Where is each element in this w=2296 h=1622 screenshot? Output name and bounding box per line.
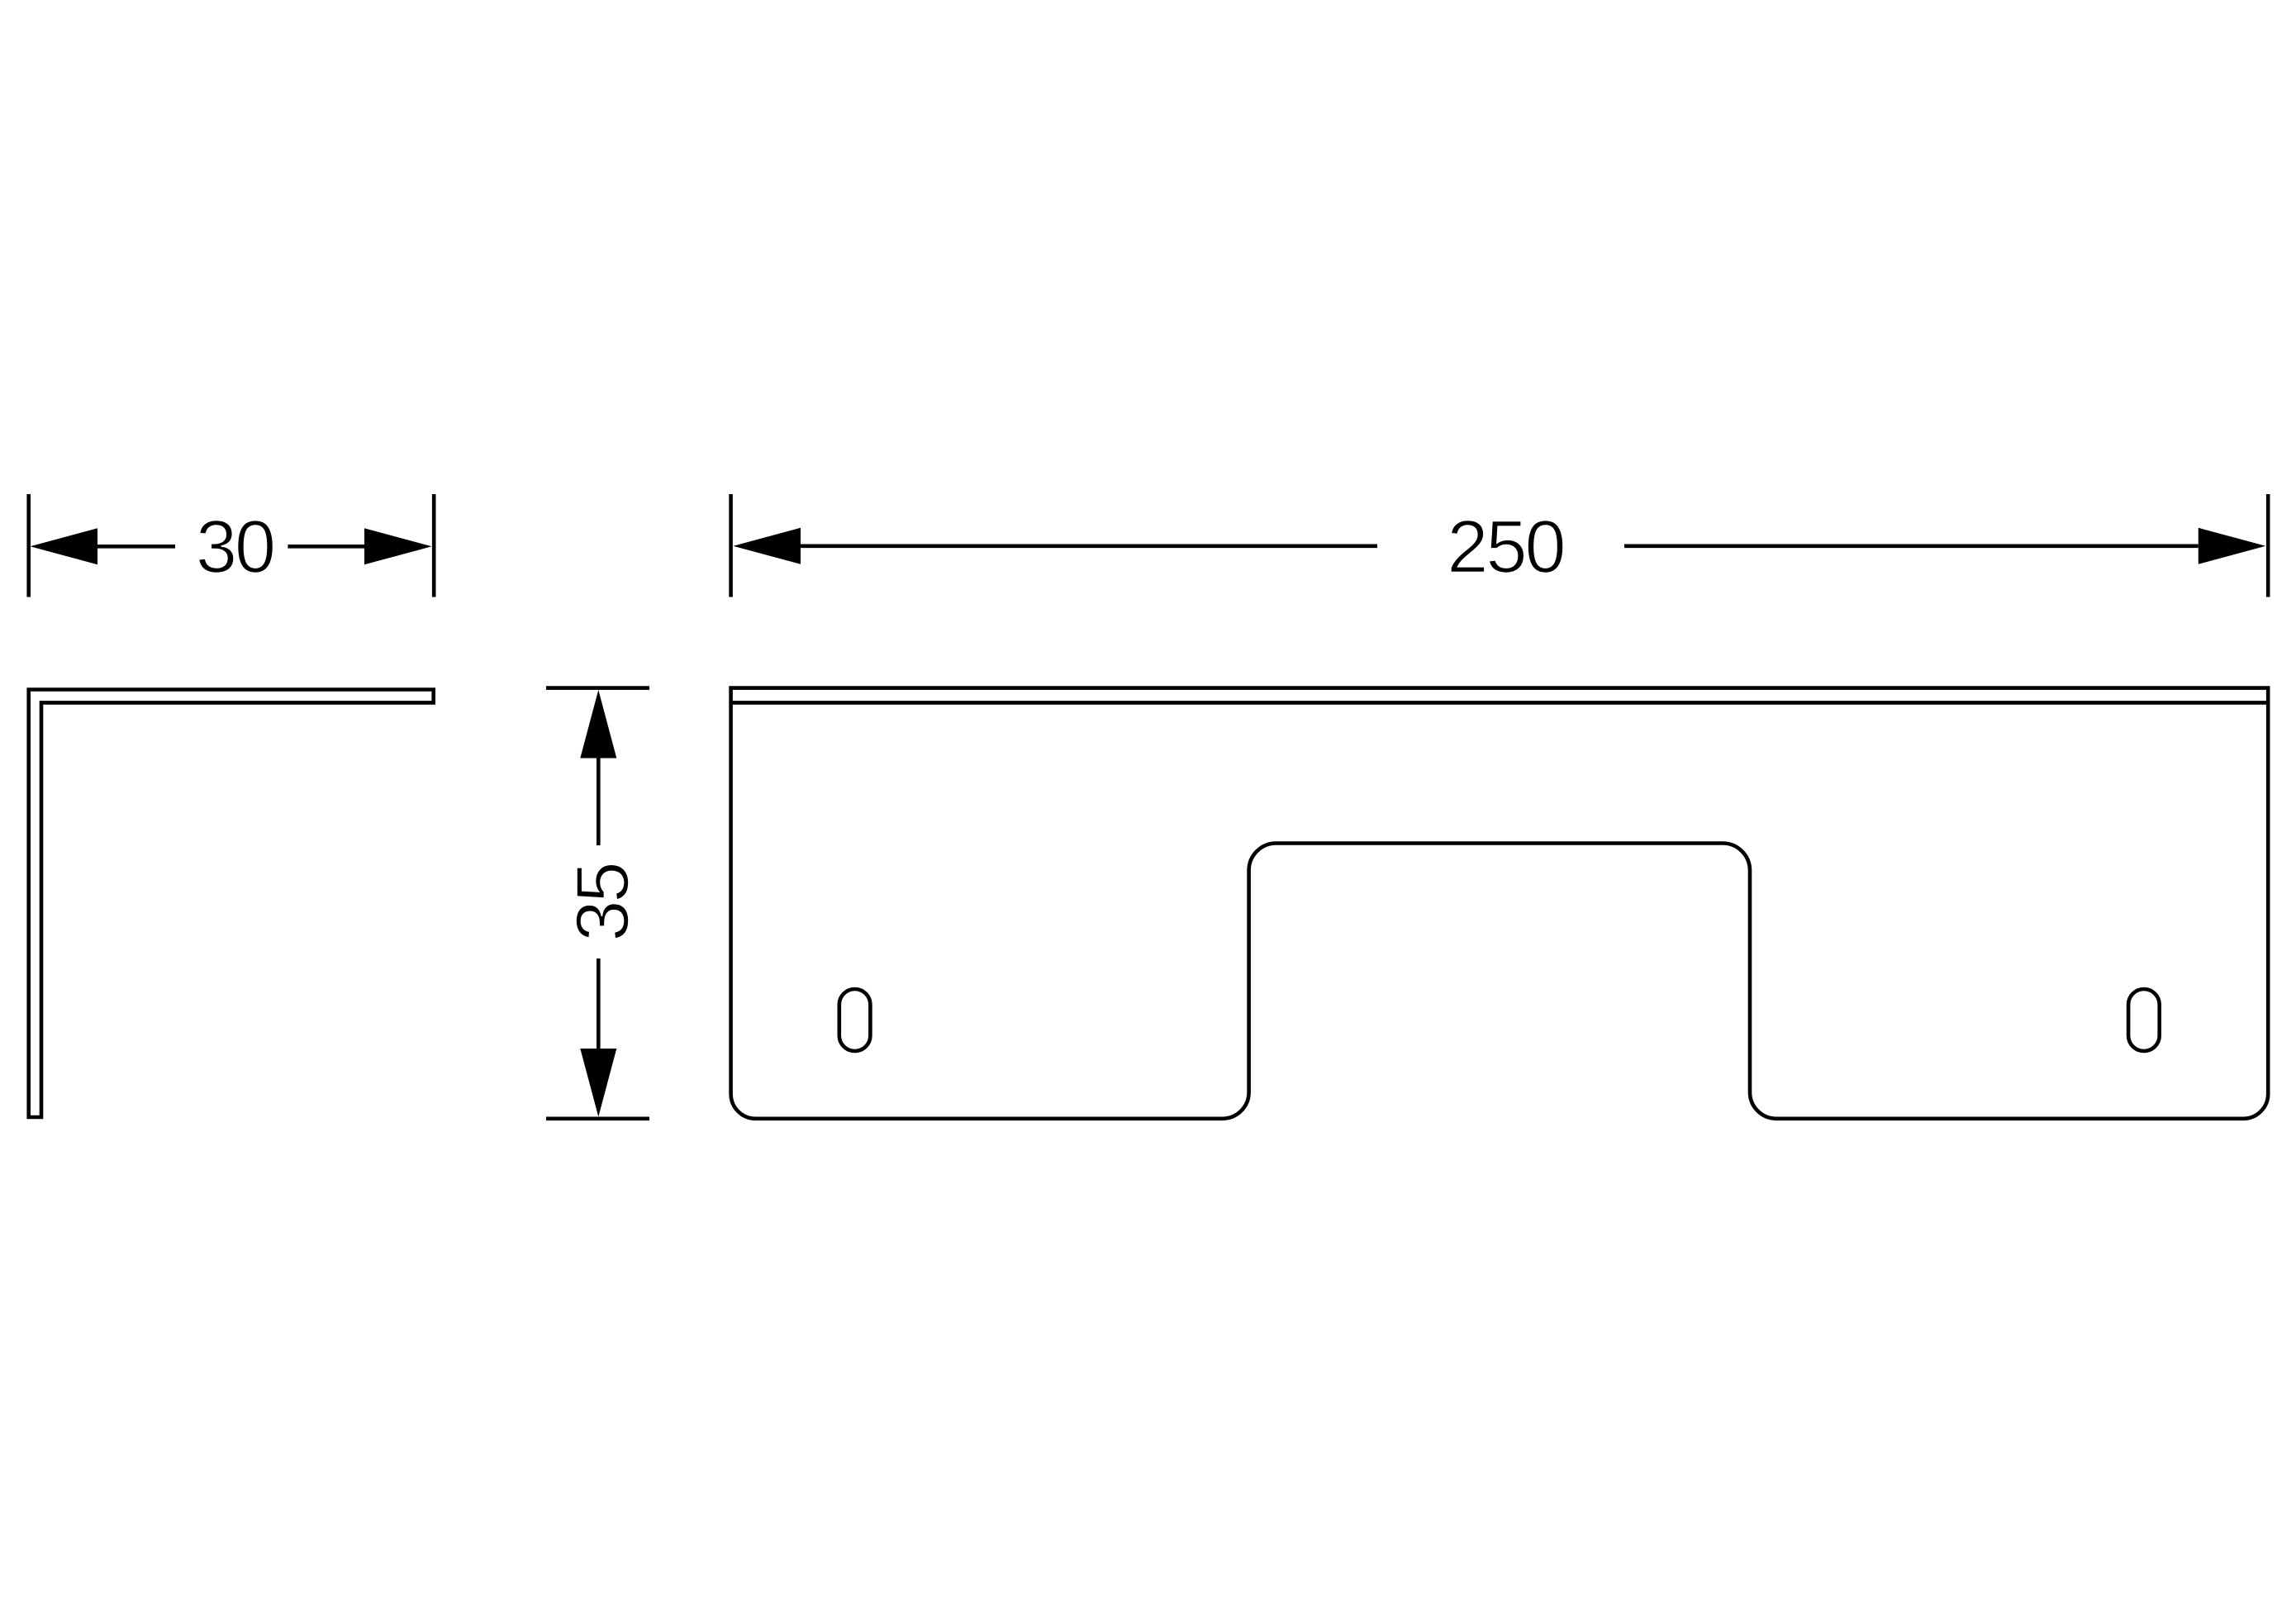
svg-text:30: 30 [196, 507, 273, 589]
svg-text:35: 35 [562, 863, 644, 941]
svg-text:250: 250 [1447, 507, 1563, 589]
